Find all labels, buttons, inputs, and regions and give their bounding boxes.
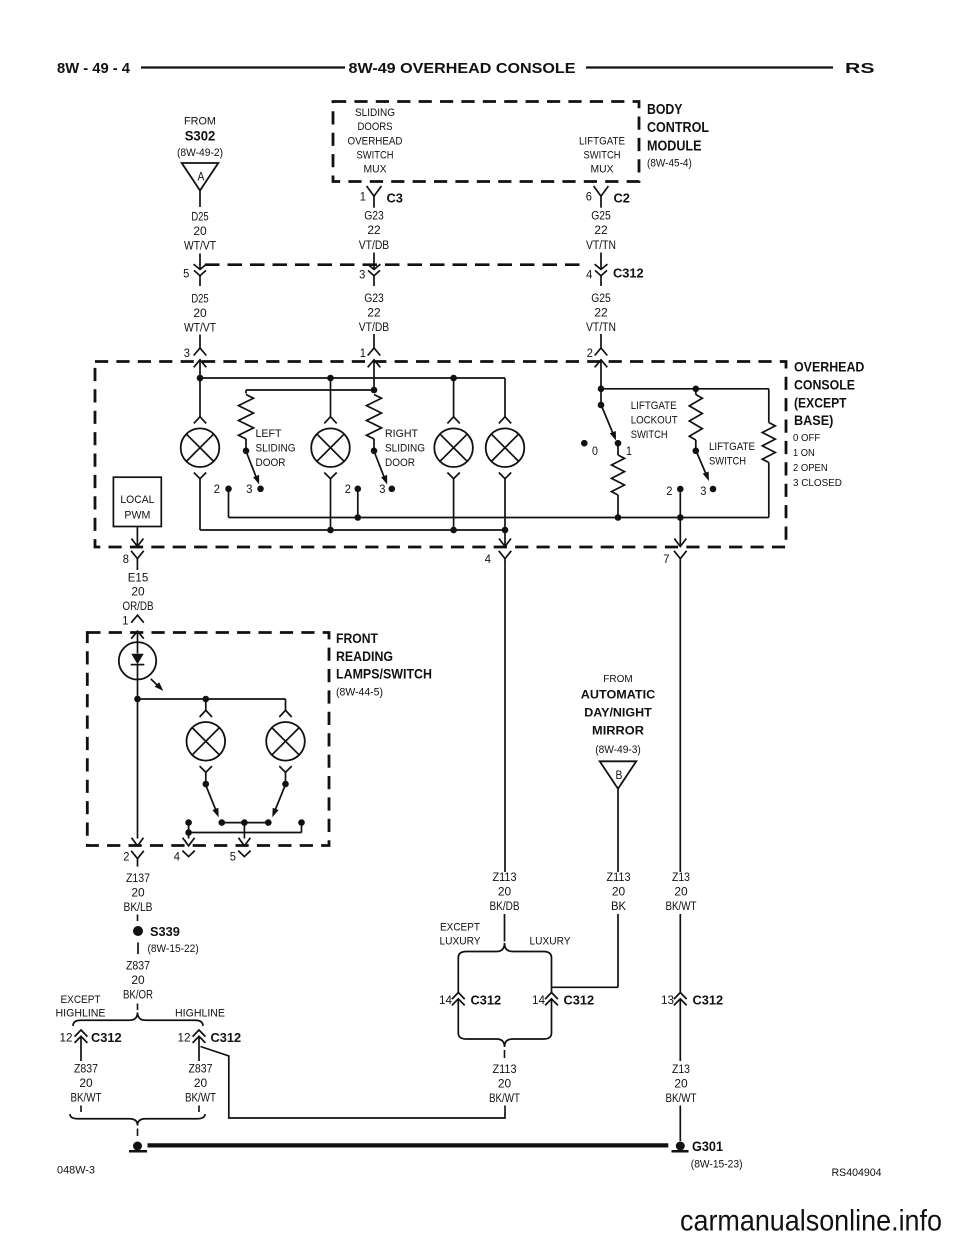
svg-text:1: 1	[626, 444, 632, 458]
wire G25 into overhead console pin 2	[600, 334, 602, 348]
wire Z113 from pin 4	[504, 567, 506, 872]
dashed tick below merge	[504, 1050, 506, 1058]
svg-text:DOOR: DOOR	[385, 457, 415, 469]
liftgate switch resistor	[695, 389, 697, 395]
wire G23 into C312 pin 3	[373, 253, 375, 270]
svg-text:22: 22	[367, 223, 380, 237]
svg-text:7: 7	[663, 552, 669, 566]
overhead console dashed box	[95, 362, 786, 548]
svg-text:C312: C312	[471, 993, 502, 1008]
svg-text:READING: READING	[336, 648, 393, 664]
wire into C312 pin 5	[199, 254, 201, 270]
svg-text:DAY/NIGHT: DAY/NIGHT	[584, 705, 652, 719]
svg-text:3: 3	[700, 484, 706, 498]
svg-text:3: 3	[246, 482, 252, 496]
svg-text:E15: E15	[128, 571, 149, 585]
svg-text:RS404904: RS404904	[832, 1167, 882, 1179]
ground bus thick wire	[148, 1143, 669, 1147]
svg-text:BK: BK	[611, 899, 627, 913]
svg-text:SWITCH: SWITCH	[631, 429, 668, 441]
svg-text:20: 20	[674, 885, 687, 899]
svg-text:C3: C3	[387, 191, 403, 206]
svg-text:OVERHEAD: OVERHEAD	[794, 359, 864, 375]
svg-text:SWITCH: SWITCH	[357, 150, 394, 162]
svg-text:LIFTGATE: LIFTGATE	[709, 441, 755, 453]
svg-text:WT/VT: WT/VT	[184, 321, 216, 335]
svg-text:LOCKOUT: LOCKOUT	[631, 415, 678, 427]
svg-text:S302: S302	[185, 129, 216, 144]
body control module dashed box	[333, 102, 639, 182]
svg-text:LIFTGATE: LIFTGATE	[631, 400, 677, 412]
svg-text:G23: G23	[364, 291, 384, 305]
svg-text:S339: S339	[150, 924, 180, 939]
svg-text:B: B	[616, 770, 623, 782]
svg-text:EXCEPT: EXCEPT	[61, 994, 101, 1006]
svg-text:BK/DB: BK/DB	[490, 899, 520, 913]
svg-text:1 ON: 1 ON	[793, 448, 815, 459]
jog wire from highline C312 to Z113 return	[201, 1047, 506, 1119]
svg-text:1: 1	[360, 190, 366, 204]
svg-text:Z837: Z837	[74, 1062, 98, 1076]
front reading lamps dashed box	[87, 633, 329, 846]
connector C312 pin 4	[595, 264, 608, 269]
svg-text:20: 20	[131, 886, 144, 900]
svg-text:BK/LB: BK/LB	[124, 900, 153, 914]
merge brace Z113	[458, 1033, 551, 1047]
pin 3 entry arrow	[194, 360, 207, 368]
svg-text:RS: RS	[845, 61, 875, 77]
svg-text:SLIDING: SLIDING	[256, 443, 296, 455]
merge brace to ground	[70, 1114, 205, 1126]
svg-text:2: 2	[587, 346, 593, 360]
svg-text:Z113: Z113	[493, 1062, 517, 1076]
svg-text:LUXURY: LUXURY	[530, 936, 571, 948]
svg-text:BK/WT: BK/WT	[489, 1091, 520, 1105]
svg-text:20: 20	[79, 1076, 92, 1090]
wire D25 into overhead console pin 3	[199, 335, 201, 349]
svg-text:22: 22	[594, 306, 607, 320]
svg-text:SLIDING: SLIDING	[355, 107, 395, 119]
connector C2 pin 6	[594, 186, 609, 196]
lamp 2	[330, 378, 332, 417]
svg-text:SLIDING: SLIDING	[385, 443, 425, 455]
wire Z113 BK from mirror	[617, 789, 619, 872]
lamp feed bus wire	[200, 377, 505, 379]
svg-text:20: 20	[612, 885, 625, 899]
svg-text:EXCEPT: EXCEPT	[440, 922, 480, 934]
svg-text:Z837: Z837	[126, 959, 150, 973]
svg-text:G25: G25	[591, 209, 611, 223]
svg-text:LIFTGATE: LIFTGATE	[579, 136, 625, 148]
svg-text:3: 3	[359, 268, 365, 282]
resistor feed bus wire	[246, 389, 374, 391]
dashed tick to S339	[137, 915, 139, 922]
svg-text:20: 20	[498, 885, 511, 899]
svg-text:VT/TN: VT/TN	[586, 238, 616, 252]
svg-text:C312: C312	[613, 266, 644, 281]
ground splice dot left	[133, 1142, 142, 1151]
svg-text:BK/WT: BK/WT	[71, 1091, 102, 1105]
right sliding door switch arm	[371, 448, 378, 455]
svg-text:MODULE: MODULE	[647, 139, 702, 155]
svg-text:BK/WT: BK/WT	[666, 1091, 697, 1105]
LED indicator arrow	[151, 679, 160, 687]
svg-text:2: 2	[666, 484, 672, 498]
wire G23 into overhead console pin 1	[373, 334, 375, 348]
svg-text:12: 12	[60, 1031, 73, 1045]
svg-text:(EXCEPT: (EXCEPT	[794, 394, 847, 410]
lockout contact 0	[581, 440, 588, 447]
svg-text:D25: D25	[191, 210, 208, 224]
svg-text:WT/VT: WT/VT	[184, 239, 216, 253]
dashed tick below BK/OR	[137, 1004, 139, 1011]
svg-text:MUX: MUX	[364, 164, 387, 176]
svg-text:(8W-15-22): (8W-15-22)	[148, 943, 199, 955]
reading lamp right	[279, 710, 291, 717]
svg-text:Z137: Z137	[126, 871, 150, 885]
svg-text:G23: G23	[364, 209, 384, 223]
svg-text:0: 0	[592, 444, 598, 458]
svg-text:LAMPS/SWITCH: LAMPS/SWITCH	[336, 666, 432, 682]
svg-text:Z113: Z113	[607, 870, 631, 884]
reading lamp feed bus	[138, 698, 286, 700]
svg-text:3: 3	[184, 346, 190, 360]
wire G25 into C312 pin 4	[600, 253, 602, 270]
off-page connector A from S302	[182, 163, 219, 191]
svg-text:13: 13	[661, 993, 674, 1007]
svg-text:MUX: MUX	[591, 164, 614, 176]
resistor left sliding door switch	[239, 395, 254, 440]
wire Z13 to C312 pin 13	[679, 914, 681, 993]
dashed tick below BK/WT	[504, 1106, 506, 1113]
split brace Z837	[73, 1013, 203, 1027]
svg-text:Z13: Z13	[672, 870, 690, 884]
right reading lamp switch arm	[275, 787, 285, 811]
svg-text:BASE): BASE)	[794, 412, 833, 428]
svg-text:1: 1	[122, 614, 128, 628]
wire to C312 pin 14 left	[457, 958, 459, 993]
dashed tick to ground dot	[137, 1129, 139, 1137]
svg-text:G25: G25	[591, 291, 611, 305]
svg-text:VT/TN: VT/TN	[586, 320, 616, 334]
liftgate lockout switch arm	[602, 407, 613, 433]
svg-text:2 OPEN: 2 OPEN	[793, 463, 828, 474]
pin 7 exit arrow	[679, 518, 681, 547]
svg-text:VT/DB: VT/DB	[359, 238, 389, 252]
liftgate lockout switch feed	[598, 386, 605, 393]
svg-text:4: 4	[485, 552, 491, 566]
svg-text:048W-3: 048W-3	[57, 1165, 95, 1177]
svg-text:LOCAL: LOCAL	[120, 494, 154, 506]
junction dots on lamp bus	[197, 375, 204, 382]
svg-text:OR/DB: OR/DB	[123, 599, 154, 613]
local pwm box	[113, 477, 161, 526]
lamp 4	[499, 417, 511, 424]
lamp 1 left sliding door	[199, 378, 201, 417]
svg-text:6: 6	[586, 190, 592, 204]
split brace Z113	[458, 943, 551, 958]
off-page connector B from mirror	[600, 761, 637, 789]
wire left contact 2 to bus	[228, 492, 230, 518]
wire Z13 to ground G301	[679, 1106, 681, 1142]
lockout contact 1	[615, 440, 622, 447]
svg-text:C312: C312	[693, 993, 724, 1008]
switch return bus wire	[229, 517, 769, 519]
svg-text:20: 20	[131, 585, 144, 599]
svg-text:C2: C2	[614, 191, 630, 206]
svg-text:2: 2	[214, 482, 220, 496]
svg-text:5: 5	[230, 850, 236, 864]
svg-text:D25: D25	[191, 292, 208, 306]
svg-text:DOORS: DOORS	[358, 121, 393, 133]
resistor right sliding door switch	[367, 395, 382, 440]
svg-text:CONTROL: CONTROL	[647, 120, 709, 136]
svg-text:carmanualsonline.info: carmanualsonline.info	[680, 1205, 942, 1238]
svg-text:RIGHT: RIGHT	[385, 428, 418, 440]
svg-text:20: 20	[193, 224, 206, 238]
svg-text:12: 12	[178, 1031, 191, 1045]
svg-text:SWITCH: SWITCH	[709, 456, 746, 468]
wire Z113 to split	[504, 914, 506, 942]
svg-text:(8W-45-4): (8W-45-4)	[647, 158, 692, 170]
pin 4 exit arrow front box	[188, 833, 190, 839]
connector C312 pin 3	[368, 264, 381, 269]
wire Z13 from pin 7	[679, 567, 681, 872]
svg-text:FROM: FROM	[603, 674, 632, 685]
reading lamp left	[205, 699, 207, 710]
svg-text:4: 4	[174, 850, 180, 864]
connector C3 pin 1	[367, 186, 382, 196]
pin 1 entry arrow into front box	[131, 631, 144, 639]
svg-text:VT/DB: VT/DB	[359, 320, 389, 334]
svg-text:BODY: BODY	[647, 102, 683, 118]
svg-text:AUTOMATIC: AUTOMATIC	[581, 687, 656, 701]
svg-text:0 OFF: 0 OFF	[793, 433, 820, 444]
svg-text:G301: G301	[692, 1139, 723, 1154]
svg-text:DOOR: DOOR	[256, 457, 286, 469]
left reading lamp switch arm	[206, 787, 216, 811]
svg-text:BK/OR: BK/OR	[123, 988, 153, 1002]
svg-text:1: 1	[360, 346, 366, 360]
pin 1 entry arrow	[368, 360, 381, 368]
svg-text:20: 20	[194, 1076, 207, 1090]
connector C312 pin 13	[674, 993, 687, 1000]
svg-text:3 CLOSED: 3 CLOSED	[793, 478, 842, 489]
connector C312 pin 5	[194, 264, 207, 269]
wire D25 upper	[199, 191, 201, 208]
svg-text:5: 5	[183, 267, 189, 281]
svg-text:20: 20	[193, 306, 206, 320]
svg-text:PWM: PWM	[124, 510, 150, 522]
lamp 3	[453, 378, 455, 417]
svg-text:HIGHLINE: HIGHLINE	[175, 1008, 225, 1020]
svg-text:C312: C312	[211, 1030, 242, 1045]
svg-text:Z13: Z13	[672, 1062, 690, 1076]
lower contact bus	[188, 823, 190, 833]
svg-text:LEFT: LEFT	[256, 428, 282, 440]
led junction dot	[134, 696, 141, 703]
svg-text:4: 4	[586, 268, 592, 282]
svg-text:8: 8	[123, 552, 129, 566]
LED illumination lamp	[119, 642, 156, 679]
wire to C312 pin 14 right	[551, 958, 553, 987]
svg-text:OVERHEAD: OVERHEAD	[348, 136, 403, 148]
switch contact row	[219, 819, 226, 826]
wire right contact 2 to bus	[357, 492, 359, 518]
svg-text:SWITCH: SWITCH	[584, 150, 621, 162]
wire into front reading lamps pin 1	[131, 615, 144, 623]
wire liftgate contact 2 down	[679, 492, 681, 517]
svg-text:A: A	[198, 172, 205, 184]
svg-text:BK/WT: BK/WT	[185, 1091, 216, 1105]
svg-text:20: 20	[131, 973, 144, 987]
svg-text:3: 3	[379, 482, 385, 496]
splice S339	[133, 926, 143, 936]
left sliding door switch arm	[243, 448, 250, 455]
liftgate switch arm	[697, 453, 706, 475]
svg-text:C312: C312	[564, 993, 595, 1008]
svg-text:(8W-49-2): (8W-49-2)	[177, 147, 223, 159]
svg-text:HIGHLINE: HIGHLINE	[56, 1008, 106, 1020]
svg-text:FRONT: FRONT	[336, 630, 378, 646]
svg-text:14: 14	[439, 993, 452, 1007]
svg-text:MIRROR: MIRROR	[592, 724, 644, 738]
local pwm output arrow pin 8	[136, 527, 138, 547]
dashed ticks above merge brace	[80, 1106, 82, 1113]
svg-text:LUXURY: LUXURY	[440, 936, 481, 948]
pin 2 entry arrow	[595, 360, 608, 368]
wire from mirror branch	[617, 914, 619, 987]
svg-text:20: 20	[674, 1077, 687, 1091]
connector C312 pin 14 right	[545, 993, 558, 1000]
resistor below lockout contact 1	[617, 445, 619, 455]
svg-text:8W - 49 - 4: 8W - 49 - 4	[57, 61, 130, 77]
pin 4 exit arrow	[504, 530, 506, 547]
connector C312 pin 12 except highline	[75, 1030, 88, 1037]
svg-text:Z113: Z113	[493, 870, 517, 884]
svg-text:8W-49 OVERHEAD CONSOLE: 8W-49 OVERHEAD CONSOLE	[349, 61, 576, 77]
svg-text:20: 20	[498, 1077, 511, 1091]
svg-text:14: 14	[532, 993, 545, 1007]
svg-text:(8W-49-3): (8W-49-3)	[595, 744, 641, 756]
svg-text:2: 2	[345, 482, 351, 496]
connector C312 pin 14 left	[452, 993, 465, 1000]
pin 5 exit arrow front box	[243, 823, 245, 839]
svg-text:Z837: Z837	[189, 1062, 213, 1076]
svg-text:BK/WT: BK/WT	[666, 899, 697, 913]
svg-text:(8W-15-23): (8W-15-23)	[691, 1159, 743, 1171]
svg-text:22: 22	[594, 223, 607, 237]
ground G301	[676, 1142, 685, 1151]
resistor fixed right	[768, 389, 770, 423]
svg-text:CONSOLE: CONSOLE	[794, 377, 855, 393]
svg-text:22: 22	[367, 306, 380, 320]
svg-text:C312: C312	[91, 1030, 122, 1045]
wire pin 2 down	[137, 699, 139, 839]
connector C312 boundary dashed line	[205, 263, 586, 266]
svg-text:(8W-44-5): (8W-44-5)	[336, 687, 383, 699]
wire E15	[136, 567, 138, 570]
svg-text:2: 2	[123, 850, 129, 864]
lamp return bus wire	[200, 529, 505, 531]
svg-text:FROM: FROM	[184, 116, 216, 128]
connector C312 pin 12 highline	[193, 1030, 206, 1037]
